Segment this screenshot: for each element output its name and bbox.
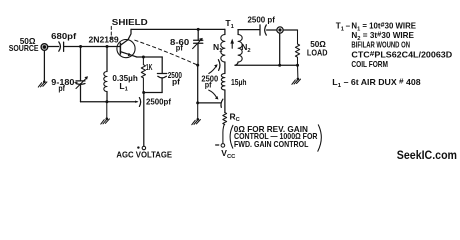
node load bottom junction (296, 64, 299, 67)
Vcc terminal (216, 144, 237, 160)
wire node B down to L1 (106, 47, 108, 72)
node AGC junction (142, 91, 145, 94)
inductor L1 0.35µh (104, 72, 138, 93)
capacitor C6 2500pf variable lower section (209, 90, 223, 107)
shield dashed diagonal (135, 40, 197, 65)
capacitor C6 2500pf variable upper section (201, 60, 220, 90)
AGC terminal (116, 146, 172, 159)
emitter top rail (137, 56, 162, 58)
ground at input tank (101, 102, 110, 124)
svg-text:2N2189: 2N2189 (89, 34, 119, 44)
capacitor C2 9-180pf variable (51, 76, 88, 93)
resistor R1 1K (141, 57, 153, 93)
transformer T1 core arrow (230, 39, 234, 49)
ground at load (292, 65, 301, 84)
shield dashed lead (110, 26, 112, 38)
svg-text:2500pf: 2500pf (146, 97, 171, 107)
inductor L2 15µh (221, 74, 246, 90)
svg-text:SHIELD: SHIELD (112, 17, 148, 27)
svg-text:pf: pf (58, 83, 65, 93)
wire source to C1 (48, 46, 59, 48)
wire trimmer branch (198, 102, 221, 104)
wire C1 to base (64, 46, 120, 48)
resistor RC (223, 111, 241, 143)
svg-text:N1: N1 (213, 42, 223, 54)
svg-text:15µh: 15µh (231, 77, 247, 87)
wire C2 to bottom rail (80, 84, 82, 102)
wire collector top rail (131, 28, 225, 30)
svg-text:RC: RC (230, 111, 241, 123)
wire AGC line down (143, 93, 145, 147)
wire terminal shield down (279, 33, 281, 65)
capacitor C5 8-60pf variable neutralizing (170, 29, 203, 64)
wire L2 to RC (224, 90, 226, 113)
source terminal 50Ω SOURCE (9, 36, 48, 53)
svg-text:1K: 1K (146, 62, 153, 72)
resistor R2 50Ω load (295, 30, 327, 65)
svg-text:AGC VOLTAGE: AGC VOLTAGE (116, 150, 172, 160)
wire output bottom rail (235, 64, 298, 66)
node shield junction (196, 64, 199, 67)
node junction A (79, 45, 82, 48)
emitter bottom rail (144, 92, 163, 94)
node trimmer branch junction (196, 101, 199, 104)
svg-text:LOAD: LOAD (307, 48, 328, 58)
svg-text:pf: pf (176, 43, 183, 53)
svg-text:VCC: VCC (221, 148, 236, 160)
transformer T1 winding N1 (213, 29, 225, 73)
capacitor C1 680pf (51, 31, 76, 52)
svg-text:COIL FORM: COIL FORM (351, 60, 388, 69)
svg-text:SeekIC.com: SeekIC.com (397, 148, 457, 162)
wire shield node down (197, 65, 199, 103)
svg-text:pf: pf (172, 76, 180, 86)
svg-text:SOURCE: SOURCE (9, 43, 39, 53)
svg-text:2500 pf: 2500 pf (248, 14, 276, 24)
node output junction (278, 64, 281, 67)
wire node A down (80, 47, 82, 81)
note T1 winding spec (336, 20, 453, 69)
svg-text:680pf: 680pf (51, 31, 76, 41)
capacitor C4 2500pf variable on AGC line (135, 97, 171, 107)
note RC gain control (230, 125, 321, 151)
svg-text:T1: T1 (225, 18, 234, 30)
svg-text:L1 – 6t AIR DUX # 408: L1 – 6t AIR DUX # 408 (332, 77, 421, 89)
output terminal (277, 27, 283, 33)
svg-text:FWD. GAIN CONTROL: FWD. GAIN CONTROL (234, 140, 308, 149)
wire terminal to load (283, 29, 297, 31)
capacitor C3 2500pf emitter bypass (157, 57, 182, 93)
wire source down to ground (43, 50, 45, 81)
capacitor C7 2500pf output (248, 14, 276, 35)
node junction B (106, 45, 109, 48)
wire C7 to output terminal (267, 29, 277, 31)
wire input bottom rail (81, 101, 138, 103)
svg-text:CTC#PLS62C4L/20063D: CTC#PLS62C4L/20063D (351, 49, 452, 60)
node L1 bottom junction (105, 100, 108, 103)
svg-text:T1 –: T1 – (336, 22, 351, 33)
svg-text:BIFILAR WOUND ON: BIFILAR WOUND ON (351, 40, 410, 49)
node R1 top junction (142, 56, 145, 59)
wire L1 to bottom rail (106, 92, 108, 102)
note L1 spec (332, 77, 421, 89)
ground at source (38, 80, 47, 87)
svg-text:0.35µh: 0.35µh (112, 73, 137, 83)
transformer T1 winding N2 (235, 30, 251, 66)
ground at shield node (192, 103, 201, 125)
transistor Q1 2N2189 (89, 29, 137, 57)
node 8-60 junction (197, 28, 200, 31)
wire N2 top to C7 (238, 29, 260, 31)
svg-text:pf: pf (205, 80, 212, 90)
